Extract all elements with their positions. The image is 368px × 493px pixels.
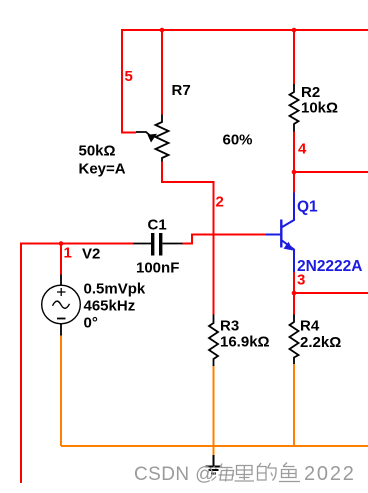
wire wiper red stub bbox=[121, 132, 136, 134]
svg-text:4: 4 bbox=[298, 141, 307, 158]
wire R7 bottom to node 2 and R3 bbox=[162, 162, 214, 316]
svg-text:0°: 0° bbox=[84, 315, 98, 332]
wire R4 bottom orange bbox=[293, 364, 295, 447]
svg-text:Q1: Q1 bbox=[297, 199, 318, 216]
svg-text:2: 2 bbox=[216, 194, 224, 211]
junction node 1 bbox=[59, 241, 64, 246]
svg-text:C1: C1 bbox=[148, 217, 167, 234]
svg-text:Key=A: Key=A bbox=[79, 161, 126, 178]
svg-text:0.5mVpk: 0.5mVpk bbox=[84, 281, 146, 298]
watermark hanzi 里 bbox=[235, 466, 255, 482]
svg-text:1: 1 bbox=[64, 245, 72, 262]
wire emitter to node 3 bbox=[293, 272, 295, 294]
ground bbox=[206, 455, 222, 474]
emitter arrow of Q1 bbox=[284, 242, 294, 251]
resistor R3 bbox=[209, 315, 218, 367]
junction dot at R2 top bbox=[292, 28, 297, 33]
wire C1 to base bbox=[183, 235, 267, 244]
wire node 4 branch right bbox=[294, 171, 368, 173]
wire node 3 branch right bbox=[294, 292, 368, 294]
resistor R4 bbox=[290, 315, 299, 365]
wiper arrow of R7 bbox=[148, 134, 158, 143]
wire V2 top lead bbox=[60, 244, 62, 275]
watermark hanzi 海 bbox=[212, 464, 235, 482]
junction node 3 bbox=[292, 291, 297, 296]
svg-text:R7: R7 bbox=[172, 82, 191, 99]
svg-text:10kΩ: 10kΩ bbox=[301, 100, 338, 117]
watermark hanzi 的 bbox=[258, 463, 277, 481]
wire left vertical bbox=[20, 243, 22, 484]
svg-text:CSDN @: CSDN @ bbox=[134, 464, 215, 485]
wire R2 top bbox=[293, 29, 295, 85]
svg-text:R4: R4 bbox=[300, 318, 320, 335]
svg-text:16.9kΩ: 16.9kΩ bbox=[220, 334, 270, 351]
svg-text:2N2222A: 2N2222A bbox=[297, 258, 363, 275]
svg-text:V2: V2 bbox=[82, 246, 100, 263]
wire R7 top bbox=[161, 29, 163, 115]
junction dot at R7 top bbox=[160, 28, 165, 33]
svg-text:R3: R3 bbox=[220, 318, 239, 335]
transistor Q1 bbox=[266, 193, 294, 273]
watermark hanzi 鱼 bbox=[279, 463, 300, 482]
junction node 4 bbox=[292, 170, 297, 175]
wire orange bottom bus bbox=[61, 445, 368, 447]
wire left drop to wiper bbox=[121, 29, 123, 133]
wire R2 bottom to collector bbox=[293, 131, 295, 193]
wire top bus bbox=[122, 29, 368, 31]
svg-text:R2: R2 bbox=[301, 84, 320, 101]
wire node 3 to R4 bbox=[293, 293, 295, 315]
potentiometer R7 bbox=[136, 115, 169, 162]
svg-text:60%: 60% bbox=[223, 132, 253, 149]
svg-text:465kHz: 465kHz bbox=[84, 298, 136, 315]
svg-text:50kΩ: 50kΩ bbox=[79, 143, 116, 160]
svg-text:3: 3 bbox=[297, 272, 305, 289]
source V2 bbox=[42, 275, 81, 336]
wire V2 top bus bbox=[21, 243, 133, 245]
svg-text:2022: 2022 bbox=[304, 463, 356, 485]
resistor R2 bbox=[290, 84, 299, 132]
wire R3 bottom orange bbox=[213, 366, 215, 457]
capacitor C1 bbox=[133, 233, 183, 256]
svg-text:5: 5 bbox=[125, 68, 133, 85]
svg-text:100nF: 100nF bbox=[136, 260, 179, 277]
svg-text:2.2kΩ: 2.2kΩ bbox=[300, 334, 341, 351]
wire V2 bottom orange bbox=[60, 335, 62, 447]
